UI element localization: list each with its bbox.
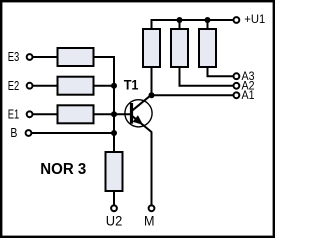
resistor (E2 input) [58,77,94,95]
junction collector node [149,92,155,98]
terminal E3 [27,54,33,60]
svg-text:E1: E1 [8,108,20,122]
svg-text:B: B [10,126,17,140]
wire resistor 3 to A3 [208,67,234,76]
terminal A2 [234,83,240,89]
svg-text:E2: E2 [8,79,20,93]
junction on bus at E1 [111,111,117,117]
svg-text:NOR 3: NOR 3 [40,161,86,178]
terminal A1 [234,92,240,98]
resistor (base to U2) [106,152,123,191]
wire collector resistor 3 top lead [207,20,209,29]
terminal +U1 [234,17,240,23]
transistor T1 [125,95,152,132]
terminal A3 [234,73,240,79]
svg-text:A1: A1 [242,90,255,102]
svg-text:T1: T1 [124,76,139,92]
junction rail at resistor 3 [205,17,211,23]
svg-text:+U1: +U1 [244,12,265,26]
junction on bus at E2 [111,83,117,89]
resistor (E1 input) [58,105,94,123]
wire E3 resistor to base bus [95,56,116,58]
wire E3 terminal to resistor [33,56,58,58]
wire collector resistor 2 top lead [179,20,181,29]
resistor (collector load 2) [171,29,188,67]
wire E1 resistor to transistor base [95,113,132,115]
svg-text:U2: U2 [106,214,123,229]
wire collector node to A1 [152,94,234,96]
wire resistor 1 to collector node [151,67,153,95]
terminal U2 [111,205,117,211]
resistor (E3 input) [58,48,94,66]
resistor (collector load 3) [199,29,216,67]
terminal E2 [27,83,33,89]
terminal E1 [27,111,33,117]
terminal M [149,205,155,211]
resistor (collector load 1) [143,29,160,67]
wire E1 terminal to resistor [33,113,58,115]
wire E2 terminal to resistor [33,85,58,87]
wire +U1 rail [152,20,233,28]
wire base bus vertical [113,56,115,152]
junction on bus at B [111,130,117,136]
terminal B [26,130,32,136]
wire E2 resistor to base bus [95,85,115,87]
wire resistor to U2 terminal [113,191,115,205]
svg-text:M: M [144,214,155,229]
junction rail at resistor 2 [177,17,183,23]
svg-text:E3: E3 [8,50,20,64]
wire emitter to M terminal [151,132,153,205]
wire B terminal to bus [32,132,115,134]
wire resistor 2 to A2 [180,67,234,86]
